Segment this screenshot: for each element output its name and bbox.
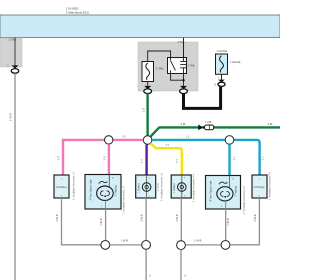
svg-text:1 W: 1 W: [181, 122, 186, 126]
fuse TAIL: [142, 62, 154, 82]
connector below fuse GAUGE: [214, 78, 225, 87]
svg-text:1 A25: 1 A25: [205, 121, 212, 124]
svg-text:2 W-B: 2 W-B: [55, 214, 59, 222]
svg-text:1 P: 1 P: [56, 156, 60, 160]
svg-text:1 W-B: 1 W-B: [9, 113, 13, 121]
svg-text:1 GAUGE: 1 GAUGE: [217, 50, 228, 53]
svg-text:1 Parking: 1 Parking: [234, 186, 237, 197]
svg-text:1 Headlight Assembly LH: 1 Headlight Assembly LH: [73, 172, 76, 200]
svg-text:1 P: 1 P: [102, 156, 106, 160]
svg-text:1 Y: 1 Y: [166, 144, 170, 147]
wire teal drop to front lamp RH: [228, 144, 230, 176]
svg-text:1 TAIL: 1 TAIL: [188, 65, 195, 68]
svg-text:1 GW1: 1 GW1: [9, 37, 18, 41]
svg-text:1 L: 1 L: [232, 156, 236, 160]
wire pink drop to front lamp LH: [108, 144, 110, 175]
wire green branch to right edge: [151, 127, 280, 136]
wire ECU to left connector: [14, 38, 16, 66]
wire splice E3 to E4: [186, 244, 222, 246]
wire thick black relay to fuse GAUGE: [184, 86, 221, 108]
connector pin below fuse: [144, 86, 152, 94]
svg-text:1 P: 1 P: [122, 135, 126, 138]
svg-text:1 Headlight Assembly LH: 1 Headlight Assembly LH: [123, 186, 126, 214]
svg-text:1 W-B: 1 W-B: [194, 238, 202, 242]
svg-text:2 W-B: 2 W-B: [140, 214, 144, 222]
svg-text:1 Headlight Assembly LH: 1 Headlight Assembly LH: [161, 173, 164, 201]
junction on teal wire: [225, 136, 234, 145]
svg-text:1 TAIL: 1 TAIL: [156, 67, 164, 71]
inline connector on green wire: [198, 121, 213, 130]
svg-text:1 V: 1 V: [140, 159, 144, 163]
ground wire box3: [145, 198, 147, 240]
wire yellow branch: [150, 143, 181, 175]
svg-text:1 W-B: 1 W-B: [226, 218, 230, 226]
wire fuse GAUGE to connector: [221, 74, 223, 79]
label Main Body ECU: [66, 6, 89, 14]
bus bar Main Body ECU: [0, 15, 280, 38]
svg-text:1 Parking: 1 Parking: [56, 185, 68, 189]
ground wire box5: [225, 209, 227, 240]
junction dot: [182, 79, 184, 81]
svg-text:A Turn Signal Light: A Turn Signal Light: [90, 179, 93, 200]
ground wire box1: [62, 198, 101, 245]
ground splice E2: [142, 241, 151, 250]
wire violet drop: [145, 144, 147, 175]
lamp box 2 front turn signal and parking LH: [85, 175, 121, 210]
wire band to relay coil: [183, 38, 185, 57]
lamp box 6 parking RH: [252, 175, 267, 198]
ground splice E3: [177, 241, 186, 250]
ground drop right: [180, 250, 182, 280]
relay TAIL: [168, 58, 187, 74]
wire splice E1 to E2: [110, 244, 142, 246]
svg-text:1 W-B: 1 W-B: [99, 218, 103, 226]
wire green fuse pin down: [146, 93, 148, 137]
svg-text:1 GAUGE: 1 GAUGE: [230, 61, 241, 64]
svg-text:A Turn Signal Light: A Turn Signal Light: [210, 180, 213, 201]
svg-text:1 Marker: 1 Marker: [173, 183, 176, 193]
wire fuse bottom to pin (internal): [147, 82, 149, 86]
wire relay contact to pin (internal): [171, 74, 184, 81]
svg-text:1 Parking: 1 Parking: [115, 185, 118, 196]
svg-text:1 G: 1 G: [142, 108, 146, 113]
lamp box 4 marker RH: [171, 175, 191, 198]
wire W-B left ground run: [14, 73, 16, 280]
svg-text:1 Marker: 1 Marker: [137, 183, 140, 193]
svg-text:1 Headlight Assembly RH: 1 Headlight Assembly RH: [268, 172, 271, 201]
wire teal right branch: [152, 140, 260, 176]
connector pin below relay: [180, 86, 188, 94]
wire coil bottom to pin (internal): [183, 74, 185, 86]
svg-text:1 TAIL: 1 TAIL: [178, 40, 186, 44]
svg-text:1 Main Body ECU: 1 Main Body ECU: [66, 10, 89, 14]
ground splice E4: [221, 241, 230, 250]
wire fuse to relay contact (internal): [148, 51, 171, 62]
svg-text:1 Front: 1 Front: [157, 183, 160, 191]
svg-text:2 W-B: 2 W-B: [253, 214, 257, 222]
svg-text:1 L: 1 L: [260, 156, 264, 160]
ground wire box4: [180, 198, 182, 241]
junction block (top left gray): [0, 38, 22, 67]
ground wire box6: [230, 198, 259, 245]
connector on left ground wire: [7, 65, 19, 74]
fuse GAUGE (right, blue): [216, 54, 228, 74]
junction on pink wire: [105, 136, 113, 144]
lamp box 3 marker LH: [136, 175, 156, 198]
svg-text:1 Headlight Assembly RH: 1 Headlight Assembly RH: [243, 186, 246, 215]
svg-text:1 W: 1 W: [268, 122, 273, 126]
svg-text:1 Y: 1 Y: [175, 159, 179, 163]
svg-text:1 Parking: 1 Parking: [253, 185, 265, 189]
lamp box 1 parking LH: [54, 175, 69, 198]
svg-text:1 W-B: 1 W-B: [121, 238, 129, 242]
ground wire box2: [105, 209, 107, 240]
svg-text:1 L: 1 L: [186, 136, 190, 139]
svg-text:2 W-B: 2 W-B: [175, 214, 179, 222]
ground splice E1: [101, 241, 110, 250]
junction node main splice: [143, 136, 152, 145]
ground drop left: [145, 249, 147, 280]
svg-text:1 Headlight Assembly RH: 1 Headlight Assembly RH: [192, 174, 195, 203]
lamp box 5 front turn signal and parking RH: [206, 176, 241, 210]
relay block (gray): [138, 42, 198, 91]
wire pink left branch: [63, 140, 143, 176]
